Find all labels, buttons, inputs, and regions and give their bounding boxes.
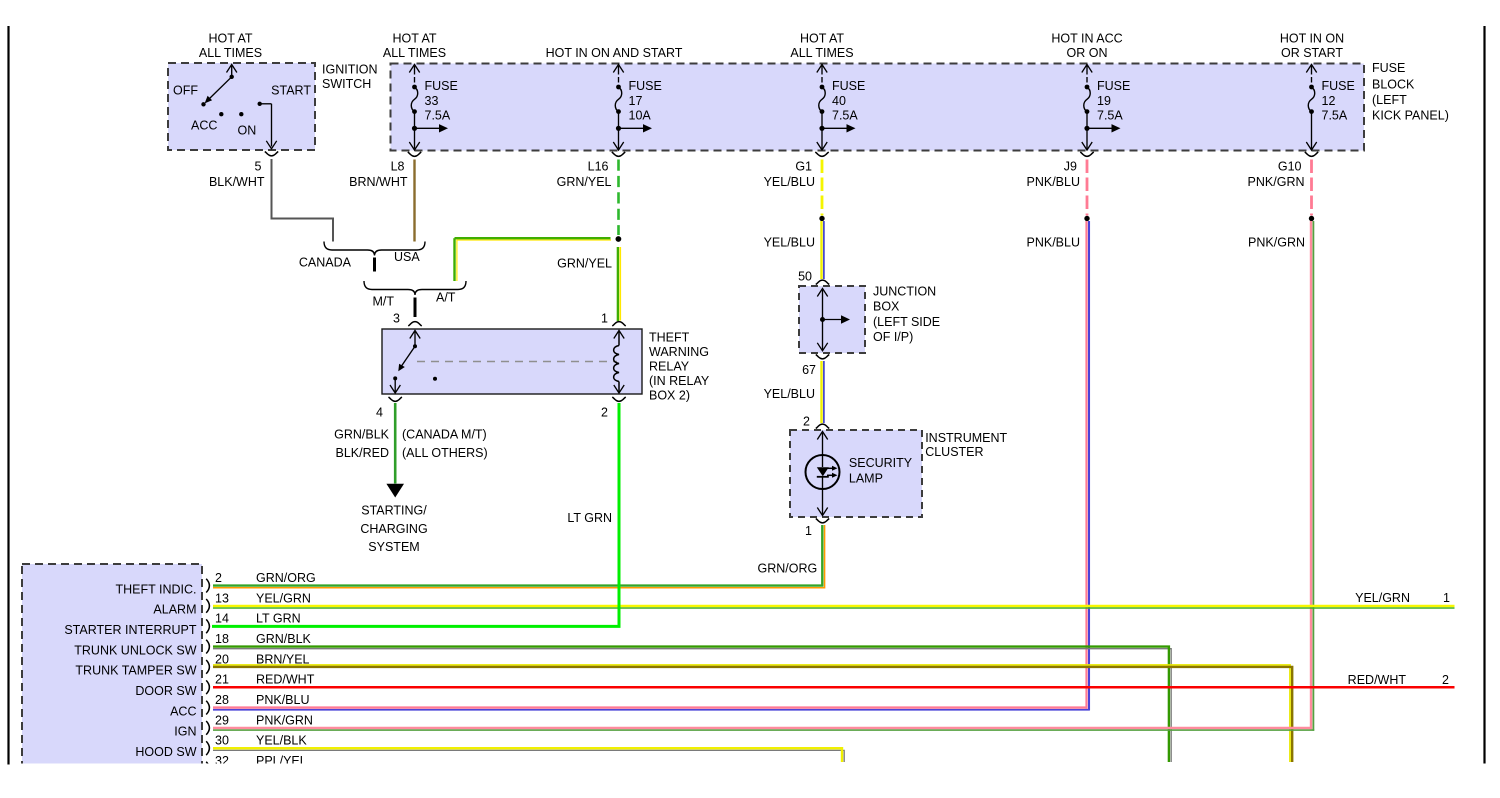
wire PNK/GRN dashed from fuse 12 pin G10 bbox=[1310, 160, 1313, 216]
svg-text:OR ON: OR ON bbox=[1067, 46, 1108, 60]
svg-text:ACC: ACC bbox=[170, 704, 196, 718]
svg-text:1: 1 bbox=[1443, 591, 1450, 605]
svg-text:YEL/BLK: YEL/BLK bbox=[256, 734, 307, 748]
svg-text:PNK/GRN: PNK/GRN bbox=[1248, 175, 1305, 189]
wire YEL/BLU junction box to cluster pin 2 (yellow) bbox=[820, 361, 822, 423]
svg-text:J9: J9 bbox=[1064, 159, 1077, 173]
svg-text:5: 5 bbox=[255, 159, 262, 173]
wire YEL/BLU dashed from fuse 40 pin G1 bbox=[821, 160, 824, 216]
node HOT AT ALL TIMES (ignition switch feed) bbox=[199, 32, 262, 61]
svg-text:YEL/GRN: YEL/GRN bbox=[256, 591, 311, 605]
pin J9 label bbox=[1064, 159, 1077, 173]
svg-text:M/T: M/T bbox=[372, 294, 394, 308]
svg-text:(LEFT: (LEFT bbox=[1372, 93, 1407, 107]
svg-text:FUSE: FUSE bbox=[629, 79, 662, 93]
control unit pin 20 connector (TRUNK TAMPER SW) bbox=[206, 660, 209, 674]
svg-text:IGN: IGN bbox=[174, 725, 196, 739]
svg-text:USA: USA bbox=[394, 250, 420, 264]
ignition switch S1 box bbox=[168, 63, 315, 150]
theft warning relay K1 box bbox=[382, 329, 642, 394]
relay pin 2 connector bbox=[612, 397, 625, 401]
wire GRN/BLK pin 18 (green) bbox=[213, 647, 1169, 762]
junction box pin 67 connector bbox=[816, 355, 829, 359]
wire PNK/BLU pin 28 (blue trace) bbox=[213, 709, 1090, 711]
wire color label YEL/GRN bbox=[256, 591, 311, 605]
ignition switch internal contacts bbox=[201, 65, 276, 149]
wire color label GRN/BLK bbox=[256, 632, 312, 646]
svg-text:BOX 2): BOX 2) bbox=[649, 388, 690, 402]
relay name label bbox=[649, 330, 710, 402]
svg-text:BLOCK: BLOCK bbox=[1372, 77, 1415, 91]
security lamp label bbox=[849, 456, 913, 485]
wire PNK/GRN solid down to pin 29 row (green trace) bbox=[1312, 221, 1314, 731]
pin G1 label bbox=[795, 159, 812, 173]
svg-text:BLK/WHT: BLK/WHT bbox=[209, 175, 265, 189]
svg-text:G1: G1 bbox=[795, 159, 812, 173]
fuse block box (left kick panel) bbox=[391, 64, 1365, 151]
wire GRN/YEL dashed from fuse 17 pin L16 bbox=[617, 160, 620, 236]
label STARTING/CHARGING SYSTEM bbox=[360, 504, 427, 554]
pin number 18 label bbox=[215, 632, 229, 646]
svg-text:RELAY: RELAY bbox=[649, 359, 690, 373]
wire GRN/YEL to relay pin 1 (green) bbox=[617, 247, 619, 321]
pin name label DOOR SW bbox=[135, 684, 196, 698]
svg-text:50: 50 bbox=[798, 269, 812, 283]
svg-text:2: 2 bbox=[215, 571, 222, 585]
svg-text:HOT AT: HOT AT bbox=[393, 32, 437, 46]
svg-text:(CANADA M/T): (CANADA M/T) bbox=[402, 427, 487, 441]
wire YEL/BLU solid to junction box pin 50 (blue trace) bbox=[823, 221, 825, 279]
relay switch contact bbox=[390, 331, 420, 394]
pin name label TRUNK UNLOCK SW bbox=[74, 643, 196, 657]
svg-text:LAMP: LAMP bbox=[849, 471, 883, 485]
pin name label ACC bbox=[170, 704, 196, 718]
svg-text:STARTER INTERRUPT: STARTER INTERRUPT bbox=[64, 623, 197, 637]
svg-text:GRN/ORG: GRN/ORG bbox=[256, 571, 316, 585]
svg-text:HOT IN ON AND START: HOT IN ON AND START bbox=[546, 46, 683, 60]
relay internal node dot bbox=[433, 377, 437, 381]
relay internal dashed link bbox=[417, 361, 617, 363]
pin number 20 label bbox=[215, 652, 229, 666]
wire GRN/BLK pin 18 (black trace) bbox=[213, 649, 1171, 762]
svg-text:10A: 10A bbox=[629, 108, 652, 122]
pin 2 label (cluster) bbox=[803, 414, 810, 428]
pin L16 label bbox=[588, 159, 609, 173]
node HOT IN ON AND START (fuse 17 feed) bbox=[546, 46, 683, 60]
svg-text:HOT AT: HOT AT bbox=[800, 32, 844, 46]
node junction dot on PNK/GRN bbox=[1309, 216, 1314, 221]
pin name label STARTER INTERRUPT bbox=[64, 623, 197, 637]
svg-text:SECURITY: SECURITY bbox=[849, 456, 913, 470]
node HOT AT ALL TIMES (fuse 33 feed) bbox=[383, 32, 446, 61]
svg-text:PNK/BLU: PNK/BLU bbox=[1027, 175, 1081, 189]
pin number 29 label bbox=[215, 713, 229, 727]
svg-text:GRN/ORG: GRN/ORG bbox=[758, 562, 818, 576]
wire color label LT GRN bbox=[256, 612, 301, 626]
svg-text:67: 67 bbox=[802, 363, 816, 377]
svg-text:2: 2 bbox=[601, 405, 608, 419]
svg-text:BLK/RED: BLK/RED bbox=[336, 446, 390, 460]
svg-text:G10: G10 bbox=[1278, 159, 1302, 173]
wire GRN/BLK-BLK/RED from relay pin 4 bbox=[394, 403, 397, 484]
instrument cluster box bbox=[790, 430, 922, 517]
wire PNK/GRN pin 29 (green trace) bbox=[213, 729, 1314, 731]
svg-text:INSTRUMENT: INSTRUMENT bbox=[925, 431, 1007, 445]
relay coil bbox=[614, 331, 625, 394]
pin 3 label bbox=[393, 311, 400, 325]
cluster pin 1 connector bbox=[816, 519, 829, 523]
wire PNK/GRN pin 29 (pink) bbox=[213, 727, 1312, 729]
svg-text:(IN RELAY: (IN RELAY bbox=[649, 374, 710, 388]
svg-text:(LEFT SIDE: (LEFT SIDE bbox=[873, 315, 940, 329]
control unit pin 2 connector (THEFT INDIC.) bbox=[206, 579, 209, 593]
svg-text:A/T: A/T bbox=[436, 290, 456, 304]
svg-text:CANADA: CANADA bbox=[299, 255, 352, 269]
label USA bbox=[394, 250, 420, 264]
pin number 14 label bbox=[215, 612, 229, 626]
wire PNK/BLU solid down to pin 28 row (blue trace) bbox=[1088, 221, 1090, 710]
pin 67 label bbox=[802, 363, 816, 377]
ignition switch position labels bbox=[173, 83, 311, 137]
wire YEL/GRN pin 13 (yellow) bbox=[213, 605, 1455, 607]
control unit pin 18 connector (TRUNK UNLOCK SW) bbox=[206, 640, 209, 654]
junction box internal bus bbox=[817, 289, 850, 351]
wire YEL/GRN pin 13 (green trace) bbox=[213, 607, 1455, 609]
svg-text:PNK/GRN: PNK/GRN bbox=[1248, 235, 1305, 249]
wire color label PNK/BLU bbox=[256, 693, 310, 707]
svg-text:ON: ON bbox=[238, 123, 257, 137]
wire YEL/BLU label (below junction box) bbox=[764, 387, 815, 401]
svg-text:HOT IN ON: HOT IN ON bbox=[1280, 32, 1344, 46]
svg-text:GRN/YEL: GRN/YEL bbox=[557, 175, 612, 189]
whiteout (diagram cropped at bottom) bbox=[0, 764, 1500, 794]
wire LT GRN label bbox=[567, 511, 612, 525]
svg-text:CHARGING: CHARGING bbox=[360, 522, 427, 536]
wire GRN/ORG cluster pin 1 to pin 2 (orange trace) bbox=[213, 525, 825, 588]
brace CANADA/USA selector bbox=[324, 242, 425, 256]
relay pin 3 connector bbox=[408, 322, 421, 326]
wire color label YEL/BLK bbox=[256, 734, 307, 748]
wire GRN/YEL branch to A/T (yellow trace) bbox=[457, 240, 611, 281]
right page border bbox=[1483, 26, 1485, 764]
svg-text:ALARM: ALARM bbox=[153, 603, 196, 617]
control unit pin 13 connector (ALARM) bbox=[206, 599, 209, 613]
fuse block pin G1 connector bbox=[815, 152, 828, 156]
svg-text:TRUNK UNLOCK SW: TRUNK UNLOCK SW bbox=[74, 643, 196, 657]
node junction dot on YEL/BLU bbox=[819, 216, 824, 221]
svg-text:RED/WHT: RED/WHT bbox=[256, 673, 315, 687]
fuse block pin L8 connector bbox=[408, 152, 421, 156]
wire GRN/YEL label bbox=[557, 175, 612, 189]
pin 5 label bbox=[255, 159, 262, 173]
wire GRN/YEL label (mid) bbox=[557, 256, 612, 270]
svg-text:SYSTEM: SYSTEM bbox=[368, 540, 419, 554]
svg-text:LT GRN: LT GRN bbox=[567, 511, 612, 525]
svg-text:GRN/YEL: GRN/YEL bbox=[557, 256, 612, 270]
label CANADA bbox=[299, 255, 352, 269]
control unit connector box bbox=[22, 564, 202, 779]
svg-text:IGNITION: IGNITION bbox=[322, 62, 378, 76]
selector tick wire to relay pin 3 bbox=[414, 298, 417, 318]
svg-text:BRN/WHT: BRN/WHT bbox=[349, 175, 408, 189]
ignition switch pin 5 connector bbox=[265, 152, 278, 156]
svg-text:YEL/GRN: YEL/GRN bbox=[1355, 591, 1410, 605]
wire color label PPL/YEL bbox=[256, 754, 307, 768]
svg-text:12: 12 bbox=[1322, 94, 1336, 108]
svg-text:GRN/BLK: GRN/BLK bbox=[256, 632, 312, 646]
svg-text:DOOR SW: DOOR SW bbox=[135, 684, 196, 698]
ignition switch name label bbox=[322, 62, 378, 91]
svg-text:2: 2 bbox=[803, 414, 810, 428]
instrument cluster name label bbox=[925, 431, 1007, 459]
wire PNK/BLU label bbox=[1027, 175, 1081, 189]
wire PNK/BLU dashed from fuse 19 pin J9 bbox=[1086, 160, 1089, 216]
off-page arrow to starting/charging system bbox=[386, 484, 404, 498]
wire PNK/BLU pin 28 (pink) bbox=[213, 706, 1087, 708]
pin 1 label bbox=[601, 311, 608, 325]
fuse F12 7.5A bbox=[1306, 65, 1355, 151]
wire GRN/ORG cluster pin 1 to pin 2 (green) bbox=[213, 525, 822, 586]
fuse F33 7.5A bbox=[409, 65, 458, 151]
wire PNK/GRN label bbox=[1248, 175, 1305, 189]
pin G10 label bbox=[1278, 159, 1302, 173]
svg-text:OF I/P): OF I/P) bbox=[873, 330, 913, 344]
fuse block pin G10 connector bbox=[1305, 152, 1318, 156]
svg-text:HOOD SW: HOOD SW bbox=[135, 745, 196, 759]
svg-text:CLUSTER: CLUSTER bbox=[925, 445, 983, 459]
pin 4 label bbox=[376, 405, 383, 419]
label A/T bbox=[436, 290, 456, 304]
svg-text:LT GRN: LT GRN bbox=[256, 612, 301, 626]
wire YEL/BLK pin 30 (black trace) bbox=[213, 750, 844, 762]
pin name label THEFT INDIC. bbox=[115, 582, 196, 596]
node HOT IN ACC OR ON (fuse 19 feed) bbox=[1051, 32, 1122, 61]
svg-text:RED/WHT: RED/WHT bbox=[1348, 673, 1407, 687]
svg-text:1: 1 bbox=[805, 524, 812, 538]
svg-text:29: 29 bbox=[215, 713, 229, 727]
svg-text:2: 2 bbox=[1442, 673, 1449, 687]
relay pin 1 connector bbox=[612, 322, 625, 326]
wire color label PNK/GRN bbox=[256, 713, 313, 727]
svg-text:BOX: BOX bbox=[873, 300, 900, 314]
junction box pin 50 connector bbox=[816, 280, 829, 284]
svg-text:3: 3 bbox=[393, 311, 400, 325]
pin name label ALARM bbox=[153, 603, 196, 617]
wire BRN/YEL pin 20 (yellow trace) bbox=[213, 665, 1290, 762]
pin name label HOOD SW bbox=[135, 745, 196, 759]
pin number 30 label bbox=[215, 734, 229, 748]
junction box (left side of I/P) bbox=[799, 286, 865, 353]
pin L8 label bbox=[391, 159, 405, 173]
cluster pin 2 connector bbox=[816, 424, 829, 428]
pin 1 label (cluster) bbox=[805, 524, 812, 538]
svg-text:THEFT: THEFT bbox=[649, 330, 690, 344]
wire YEL/BLU label (below dot) bbox=[764, 235, 815, 249]
node junction dot on GRN/YEL bbox=[616, 236, 622, 242]
svg-text:PNK/GRN: PNK/GRN bbox=[256, 713, 313, 727]
svg-text:JUNCTION: JUNCTION bbox=[873, 284, 936, 298]
svg-text:PNK/BLU: PNK/BLU bbox=[256, 693, 310, 707]
wire color label RED/WHT bbox=[256, 673, 315, 687]
svg-text:(ALL OTHERS): (ALL OTHERS) bbox=[402, 446, 488, 460]
pin 50 label bbox=[798, 269, 812, 283]
node HOT AT ALL TIMES (fuse 40 feed) bbox=[790, 32, 853, 61]
pin 2 label bbox=[601, 405, 608, 419]
wire color label BRN/YEL bbox=[256, 652, 310, 666]
svg-text:L16: L16 bbox=[588, 159, 609, 173]
wire color label GRN/ORG bbox=[256, 571, 316, 585]
control unit pin 28 connector (ACC) bbox=[206, 701, 209, 715]
svg-text:KICK PANEL): KICK PANEL) bbox=[1372, 109, 1449, 123]
svg-text:FUSE: FUSE bbox=[425, 79, 458, 93]
svg-text:FUSE: FUSE bbox=[1372, 61, 1405, 75]
pin name label IGN bbox=[174, 725, 196, 739]
pin number 2 label bbox=[215, 571, 222, 585]
svg-text:OR START: OR START bbox=[1281, 46, 1343, 60]
wire PNK/BLU label (below dot) bbox=[1027, 235, 1081, 249]
svg-text:4: 4 bbox=[376, 405, 383, 419]
fuse block pin J9 connector bbox=[1080, 152, 1093, 156]
svg-text:HOT IN ACC: HOT IN ACC bbox=[1051, 32, 1122, 46]
left page border bbox=[7, 26, 9, 765]
svg-text:19: 19 bbox=[1097, 94, 1111, 108]
wire BLK/WHT label bbox=[209, 175, 265, 189]
fuse F19 7.5A bbox=[1082, 65, 1131, 151]
svg-text:YEL/BLU: YEL/BLU bbox=[764, 235, 815, 249]
fuse F40 7.5A bbox=[817, 65, 866, 151]
svg-text:GRN/BLK: GRN/BLK bbox=[334, 427, 390, 441]
node HOT IN ON OR START (fuse 12 feed) bbox=[1280, 32, 1344, 61]
svg-text:YEL/BLU: YEL/BLU bbox=[764, 387, 815, 401]
svg-text:FUSE: FUSE bbox=[1097, 79, 1130, 93]
svg-text:21: 21 bbox=[215, 673, 229, 687]
wire RED/WHT right end labels bbox=[1348, 673, 1449, 687]
svg-text:TRUNK TAMPER SW: TRUNK TAMPER SW bbox=[75, 664, 196, 678]
fuse block pin L16 connector bbox=[612, 152, 625, 156]
svg-text:PNK/BLU: PNK/BLU bbox=[1027, 235, 1081, 249]
svg-text:7.5A: 7.5A bbox=[832, 108, 858, 122]
label M/T bbox=[372, 294, 394, 308]
svg-text:ACC: ACC bbox=[191, 118, 217, 132]
wire GRN/YEL branch to A/T (green) bbox=[455, 237, 611, 239]
svg-text:OFF: OFF bbox=[173, 83, 198, 97]
svg-text:FUSE: FUSE bbox=[832, 79, 865, 93]
security lamp LED symbol bbox=[806, 432, 840, 516]
svg-text:18: 18 bbox=[215, 632, 229, 646]
node junction dot on PNK/BLU bbox=[1084, 216, 1089, 221]
junction box name label bbox=[873, 284, 940, 344]
svg-text:7.5A: 7.5A bbox=[1322, 108, 1348, 122]
svg-text:STARTING/: STARTING/ bbox=[361, 504, 427, 518]
wire YEL/BLU junction box to cluster pin 2 (blue trace) bbox=[823, 361, 825, 423]
fuse block name label bbox=[1372, 61, 1449, 123]
svg-text:WARNING: WARNING bbox=[649, 345, 709, 359]
brace M/T-A/T selector bbox=[364, 281, 466, 295]
pin number 21 label bbox=[215, 673, 229, 687]
wire GRN/YEL to relay pin 1 (yellow trace) bbox=[619, 247, 621, 321]
wire BRN/YEL pin 20 (brown) bbox=[213, 667, 1292, 762]
svg-text:7.5A: 7.5A bbox=[1097, 108, 1123, 122]
svg-text:L8: L8 bbox=[391, 159, 405, 173]
wire PNK/GRN label (below dot) bbox=[1248, 235, 1305, 249]
svg-text:28: 28 bbox=[215, 693, 229, 707]
wire BRN/WHT label bbox=[349, 175, 408, 189]
pin number 28 label bbox=[215, 693, 229, 707]
control unit pin 29 connector (IGN) bbox=[206, 721, 209, 735]
svg-text:17: 17 bbox=[629, 94, 643, 108]
control unit pin 30 connector (HOOD SW) bbox=[206, 741, 209, 755]
wire YEL/GRN right end labels bbox=[1355, 591, 1450, 605]
svg-text:ALL TIMES: ALL TIMES bbox=[790, 46, 853, 60]
svg-text:ALL TIMES: ALL TIMES bbox=[199, 46, 262, 60]
svg-text:40: 40 bbox=[832, 94, 846, 108]
control unit pin 32 connector (PPL/YEL) bbox=[206, 762, 209, 776]
control unit pin 14 connector (STARTER INTERRUPT) bbox=[206, 619, 209, 633]
wire name labels (relay pin 4) bbox=[334, 427, 488, 460]
wire RED/WHT pin 21 bbox=[213, 686, 1455, 688]
svg-text:HOT AT: HOT AT bbox=[209, 32, 253, 46]
svg-text:START: START bbox=[271, 83, 311, 97]
pin name label TRUNK TAMPER SW bbox=[75, 664, 196, 678]
wire PNK/GRN solid down to pin 29 row (pink) bbox=[1310, 221, 1312, 729]
wire YEL/BLU solid to junction box pin 50 (yellow) bbox=[820, 221, 822, 279]
wire YEL/BLU label bbox=[764, 175, 815, 189]
svg-text:THEFT INDIC.: THEFT INDIC. bbox=[115, 582, 196, 596]
wire GRN/ORG label bbox=[758, 562, 818, 576]
wire BRN/WHT from fuse 33 pin L8 bbox=[413, 160, 415, 242]
svg-text:ALL TIMES: ALL TIMES bbox=[383, 46, 446, 60]
wire BLK/WHT from ignition switch pin 5 bbox=[272, 159, 334, 242]
svg-text:SWITCH: SWITCH bbox=[322, 77, 371, 91]
relay pin 4 connector bbox=[389, 397, 402, 401]
svg-text:30: 30 bbox=[215, 734, 229, 748]
svg-text:33: 33 bbox=[425, 94, 439, 108]
svg-text:1: 1 bbox=[601, 311, 608, 325]
wire YEL/BLK pin 30 (yellow) bbox=[213, 748, 842, 762]
wire PNK/BLU solid down to pin 28 row (pink) bbox=[1085, 221, 1087, 709]
svg-text:13: 13 bbox=[215, 591, 229, 605]
svg-text:7.5A: 7.5A bbox=[425, 108, 451, 122]
svg-text:FUSE: FUSE bbox=[1322, 79, 1355, 93]
svg-text:14: 14 bbox=[215, 612, 229, 626]
svg-text:YEL/BLU: YEL/BLU bbox=[764, 175, 815, 189]
control unit pin 21 connector (DOOR SW) bbox=[206, 680, 209, 694]
fuse F17 10A bbox=[613, 65, 662, 151]
pin number 13 label bbox=[215, 591, 229, 605]
wire LT GRN from relay pin 2 to pin 14 bbox=[212, 403, 619, 626]
selector tick wire bbox=[373, 258, 376, 272]
pin number 32 label bbox=[215, 754, 229, 768]
